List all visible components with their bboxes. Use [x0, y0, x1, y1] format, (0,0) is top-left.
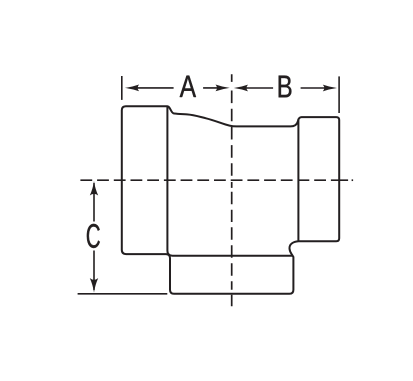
- dimension C line lower segment: [93, 251, 95, 291]
- arrowhead A right: [216, 85, 230, 92]
- label B: [279, 76, 292, 98]
- vertical branch centerline (dashed): [231, 74, 233, 306]
- dimension C line upper segment: [93, 183, 95, 222]
- arrowhead B left: [234, 85, 248, 92]
- dimension A line right segment: [203, 87, 221, 89]
- label A: [180, 76, 196, 97]
- horizontal centerline (dashed): [80, 179, 330, 181]
- dimension B right extension tick: [338, 76, 340, 113]
- arrowhead C up: [90, 181, 98, 196]
- dimension B line left segment: [243, 87, 274, 89]
- label C: [87, 224, 100, 248]
- dimension B line right segment: [301, 87, 325, 89]
- dimension A left extension tick: [121, 76, 123, 100]
- arrowhead B right: [323, 85, 337, 92]
- dimension A line left segment: [135, 87, 174, 89]
- left collar inner edge joining bottom outlet top edge: [167, 107, 293, 256]
- right collar inner edge: [297, 119, 299, 241]
- fitting body outer outline (grooved reducing tee, side view): [122, 106, 339, 294]
- arrowhead A left: [125, 85, 139, 92]
- dimension C bottom extension line: [78, 293, 168, 295]
- arrowhead C down: [90, 278, 98, 293]
